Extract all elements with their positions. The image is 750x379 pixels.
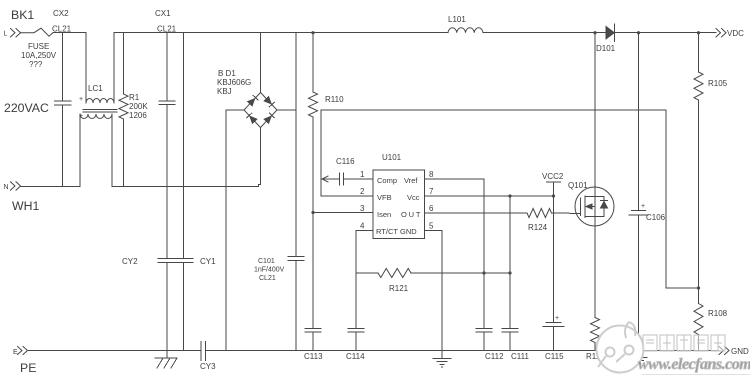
capacitor C112: [476, 273, 492, 351]
svg-text:PE: PE: [20, 361, 36, 375]
wire bridge bottom corner to N line end: [260, 128, 262, 185]
svg-text:R124: R124: [528, 223, 548, 232]
capacitor C115 electrolytic: [543, 196, 564, 351]
svg-text:2: 2: [360, 187, 365, 196]
svg-text:Q101: Q101: [568, 181, 588, 190]
chassis ground: [155, 351, 177, 369]
port VDC: [716, 29, 726, 37]
junction VCC2: [552, 194, 555, 197]
transistor Q101: [575, 187, 614, 226]
svg-text:KBJ: KBJ: [217, 87, 232, 96]
earth ground U101: [433, 351, 451, 368]
svg-text:D101: D101: [596, 44, 616, 53]
svg-text:C106: C106: [646, 213, 666, 222]
svg-text:5: 5: [429, 222, 434, 231]
op-amp U101 box: [373, 170, 425, 239]
junction R105 bus: [697, 31, 700, 34]
power port VCC2: [547, 182, 561, 196]
capacitor CX2: [55, 33, 71, 186]
svg-text:7: 7: [429, 187, 434, 196]
svg-text:R110: R110: [325, 95, 344, 104]
common-mode choke LC1: [80, 33, 117, 186]
svg-text:KBJ606G: KBJ606G: [217, 78, 251, 87]
resistor R121: [356, 269, 510, 278]
wire pin8 Vref: [425, 178, 485, 180]
wire Q101 drain riser: [594, 33, 596, 197]
svg-text:1nF/400V: 1nF/400V: [254, 267, 285, 274]
U101 pin names: [376, 176, 422, 236]
svg-text:R1: R1: [129, 93, 140, 102]
wire DC riser up to bus: [295, 33, 297, 110]
port N: [11, 182, 21, 190]
svg-text:VFB: VFB: [377, 193, 392, 202]
svg-text:Comp: Comp: [377, 176, 397, 185]
resistor R1: [119, 33, 128, 186]
capacitor CY3: [201, 342, 206, 361]
junction feedback tap: [697, 286, 700, 289]
junction R110 top: [311, 31, 314, 34]
wire pin2 VFB: [321, 195, 373, 197]
svg-text:CY1: CY1: [200, 257, 216, 266]
capacitor C113: [305, 213, 321, 351]
port L: [11, 29, 21, 37]
wire Q101 source: [594, 217, 596, 318]
junction drain bus: [593, 31, 596, 34]
capacitor C114: [348, 273, 364, 351]
wire N to bridge left corner and DC- drop: [226, 109, 244, 111]
wire N line right: [112, 186, 259, 188]
svg-text:WH1: WH1: [12, 199, 39, 213]
capacitor C111: [502, 196, 518, 351]
wire pin3 Isen: [313, 212, 373, 214]
svg-text:BK1: BK1: [11, 8, 34, 22]
label FUSE 10A,250V ???: [21, 42, 57, 69]
svg-text:L101: L101: [448, 15, 466, 24]
svg-text:R105: R105: [708, 79, 728, 88]
wire PE line: [28, 350, 201, 352]
capacitor C106 electrolytic: [629, 33, 648, 351]
svg-text:C113: C113: [304, 352, 323, 361]
resistor R105: [694, 33, 703, 288]
svg-text:10A,250V: 10A,250V: [21, 51, 57, 60]
feedback loop wire right: [665, 110, 667, 288]
svg-text:C115: C115: [545, 352, 564, 361]
capacitor C116: [322, 173, 373, 185]
svg-text:CL21: CL21: [259, 275, 276, 282]
label BD1 KBJ606G KBJ: [217, 69, 251, 96]
resistor R108: [694, 288, 703, 351]
svg-text:3: 3: [360, 204, 365, 213]
svg-text:+: +: [555, 315, 559, 322]
wire bus L101 to D101: [483, 32, 606, 34]
svg-text:E: E: [13, 349, 18, 356]
capacitor CX1: [159, 33, 175, 186]
svg-text:CL21: CL21: [52, 25, 72, 34]
capacitor C101: [288, 110, 304, 351]
svg-text:Isen: Isen: [377, 210, 391, 219]
svg-text:220VAC: 220VAC: [4, 101, 49, 115]
svg-text:C112: C112: [485, 352, 504, 361]
resistor R110: [309, 33, 318, 213]
inductor L101: [448, 28, 483, 33]
wire bridge top corner riser: [260, 33, 262, 93]
port PE: [18, 347, 28, 355]
wire L bus choke to bridge: [114, 32, 261, 34]
wire bus D101 to VDC: [615, 32, 717, 34]
svg-text:B D1: B D1: [218, 69, 236, 78]
svg-text:LC1: LC1: [88, 84, 103, 93]
wire top DC bus to L101: [261, 32, 449, 34]
svg-text:1206: 1206: [129, 111, 147, 120]
wire bridge right corner to DC riser: [277, 109, 296, 111]
svg-text:VCC2: VCC2: [542, 172, 564, 181]
svg-text:GND: GND: [400, 227, 417, 236]
junction R121 Vref: [482, 271, 485, 274]
junction R121 right: [508, 271, 511, 274]
svg-text:U101: U101: [382, 153, 402, 162]
svg-text:CY3: CY3: [200, 362, 216, 371]
svg-text:www.elecfans.com: www.elecfans.com: [638, 356, 750, 373]
svg-text:C101: C101: [258, 258, 275, 265]
wire CY2 drop: [166, 186, 168, 259]
svg-text:+: +: [79, 113, 83, 120]
svg-text:CY2: CY2: [122, 257, 138, 266]
svg-text:CL21: CL21: [157, 25, 177, 34]
svg-text:OUT: OUT: [401, 210, 422, 219]
svg-text:200K: 200K: [129, 102, 148, 111]
feedback loop wire top: [320, 110, 322, 196]
svg-text:R121: R121: [389, 284, 409, 293]
wire pin5 GND: [425, 230, 443, 232]
wire ground bus: [206, 350, 720, 352]
wire N line left: [21, 186, 80, 188]
svg-text:8: 8: [429, 170, 434, 179]
diode D101: [606, 24, 615, 42]
svg-text:C116: C116: [336, 157, 355, 166]
svg-text:GND: GND: [731, 347, 749, 356]
svg-text:RT/CT: RT/CT: [376, 227, 398, 236]
svg-text:FUSE: FUSE: [28, 42, 49, 51]
label R1 200K 1206: [129, 93, 148, 120]
resistor R116: [591, 318, 600, 351]
svg-text:1: 1: [360, 170, 365, 179]
watermark text line 1: [643, 335, 725, 351]
watermark logo: [597, 322, 644, 373]
svg-text:CX2: CX2: [53, 9, 69, 18]
svg-text:Vcc: Vcc: [407, 193, 420, 202]
earth ground C106: [630, 351, 647, 364]
svg-text:6: 6: [429, 204, 434, 213]
port GND: [719, 347, 729, 355]
arrow into feedback node: [322, 176, 328, 182]
capacitor CY1: [175, 259, 193, 351]
junction R110 Isen: [311, 211, 314, 214]
wire CY1 drop from L bus: [183, 33, 185, 259]
fuse BK1: [21, 28, 53, 36]
junction C106 bus: [637, 31, 640, 34]
wire L bus fuse to choke: [53, 32, 86, 34]
U101 pin numbers: [360, 170, 434, 231]
svg-text:CX1: CX1: [155, 9, 171, 18]
resistor R124: [425, 209, 581, 218]
svg-text:VDC: VDC: [727, 29, 744, 38]
junction Vcc C111: [508, 194, 511, 197]
svg-text:R108: R108: [708, 309, 728, 318]
svg-text:Vref: Vref: [404, 176, 418, 185]
capacitor CY2: [158, 259, 176, 351]
svg-text:???: ???: [29, 60, 43, 69]
svg-text:N: N: [4, 184, 9, 191]
svg-text:L: L: [4, 31, 8, 38]
svg-text:+: +: [79, 96, 83, 103]
svg-text:C111: C111: [511, 352, 529, 361]
svg-text:4: 4: [360, 222, 365, 231]
svg-text:+: +: [641, 203, 645, 210]
bridge rectifier BD1: [244, 93, 277, 128]
svg-text:C114: C114: [346, 352, 365, 361]
wire pin4 RT/CT: [356, 230, 373, 232]
label C101 1nF/400V CL21: [254, 258, 285, 282]
watermark frame: [642, 374, 750, 376]
wire pin7 Vcc: [425, 195, 554, 197]
